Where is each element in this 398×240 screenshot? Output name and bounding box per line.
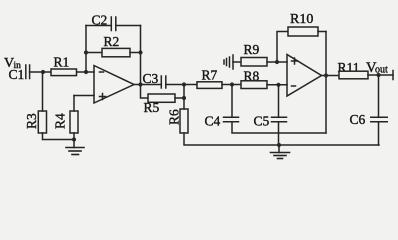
wire <box>73 96 75 112</box>
svg-text:R9: R9 <box>244 42 260 57</box>
ground <box>271 153 290 159</box>
wire <box>231 85 233 118</box>
wire <box>86 25 111 27</box>
node junction R5/R6 <box>182 96 186 100</box>
svg-text:C5: C5 <box>254 114 270 129</box>
wire <box>378 75 380 117</box>
node junction ground rail <box>277 143 281 147</box>
svg-text:R4: R4 <box>53 113 68 129</box>
wire <box>278 145 280 153</box>
wire <box>73 133 75 148</box>
capacitor C4 <box>224 117 239 122</box>
ground <box>66 148 84 155</box>
wire <box>277 32 288 63</box>
capacitor C2 <box>111 17 116 31</box>
svg-text:R10: R10 <box>290 12 313 27</box>
svg-text:R7: R7 <box>202 68 218 83</box>
svg-text:C6: C6 <box>350 112 366 127</box>
resistor R4 <box>70 111 78 133</box>
svg-text:C4: C4 <box>205 114 221 129</box>
svg-text:C1: C1 <box>9 67 25 82</box>
wire <box>141 85 149 99</box>
svg-text:C3: C3 <box>143 71 159 86</box>
resistor R10 <box>288 27 318 36</box>
op-amp U2 <box>287 55 322 97</box>
node junction R2 left <box>84 50 88 54</box>
node junction R9/R10 <box>275 60 279 64</box>
wire <box>278 122 280 145</box>
wire <box>322 75 340 77</box>
wire <box>267 61 287 63</box>
resistor R3 <box>38 111 46 133</box>
wire <box>134 84 161 86</box>
wire <box>175 97 184 99</box>
wire <box>140 26 142 85</box>
node junction C1/R1/R3 <box>41 70 45 74</box>
resistor R7 <box>197 82 222 89</box>
wire <box>166 84 197 86</box>
node junction Vout/C6 <box>376 73 380 77</box>
resistor R9 <box>241 58 267 67</box>
resistor R5 <box>148 94 175 102</box>
label Vin <box>4 56 21 71</box>
wire <box>184 133 379 145</box>
wire <box>85 26 87 73</box>
resistor R11 <box>339 71 368 79</box>
resistor R2 <box>102 48 130 56</box>
svg-text:R3: R3 <box>24 113 39 129</box>
resistor R1 <box>51 69 77 76</box>
node junction output U1 <box>138 82 142 86</box>
svg-text:C2: C2 <box>92 13 108 28</box>
wire <box>86 52 102 54</box>
wire <box>232 122 326 133</box>
node junction main/R6 <box>182 82 186 86</box>
capacitor C1 <box>26 65 30 79</box>
ground chassis at R9 <box>224 55 233 69</box>
resistor R6 <box>180 109 188 133</box>
wire <box>30 71 94 73</box>
wire <box>325 32 327 134</box>
label Vout <box>366 60 388 76</box>
resistor R8 <box>241 81 267 89</box>
node junction R2 right <box>138 50 142 54</box>
capacitor C5 <box>272 117 287 122</box>
wire <box>183 85 185 110</box>
wire <box>267 84 287 86</box>
svg-text:R5: R5 <box>144 100 160 115</box>
wire <box>233 61 241 63</box>
capacitor C6 <box>371 117 387 122</box>
node junction R8/C5 <box>276 83 280 87</box>
wire <box>368 74 393 76</box>
node junction R7/C4 <box>230 82 234 86</box>
node junction output U2 <box>324 73 328 77</box>
svg-text:out: out <box>375 65 388 76</box>
wire <box>318 31 326 33</box>
svg-text:R6: R6 <box>167 109 182 125</box>
op-amp U1 <box>94 66 134 104</box>
node junction R1/feedback <box>84 70 88 74</box>
node junction R3/R4 <box>72 137 76 141</box>
wire <box>222 84 241 86</box>
terminal Vout <box>392 71 394 80</box>
capacitor C3 <box>161 76 166 88</box>
wire <box>378 122 380 145</box>
wire <box>116 25 141 27</box>
wire <box>278 85 280 118</box>
wire <box>130 52 141 54</box>
wire <box>42 72 44 111</box>
wire <box>74 95 94 97</box>
svg-text:R2: R2 <box>104 34 120 49</box>
svg-text:R1: R1 <box>54 55 70 70</box>
wire <box>43 133 75 140</box>
